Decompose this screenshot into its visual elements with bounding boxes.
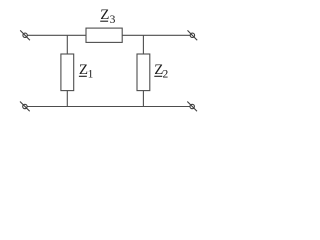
label Z1: [79, 62, 94, 81]
terminal top-left slash: [20, 30, 30, 40]
terminal bottom-left slash: [20, 102, 30, 112]
terminal top-left circle: [23, 33, 27, 37]
impedance Z1 box: [61, 54, 74, 91]
svg-text:3: 3: [110, 14, 116, 26]
terminal bottom-left circle: [23, 104, 27, 108]
svg-text:2: 2: [163, 69, 169, 81]
wire top rail left segment: [27, 34, 86, 36]
label Z2: [154, 62, 168, 81]
label Z3: [100, 7, 115, 26]
terminal bottom-right circle: [190, 104, 194, 108]
wire bottom rail: [27, 106, 190, 108]
wire top rail right segment: [122, 34, 190, 36]
wire right branch lower: [142, 91, 144, 107]
terminal top-right slash: [188, 30, 198, 40]
terminal bottom-right slash: [187, 102, 197, 112]
terminal top-right circle: [190, 33, 194, 37]
wire left branch lower: [66, 91, 68, 107]
impedance Z3 box: [86, 28, 122, 42]
wire left branch upper: [66, 35, 68, 54]
svg-text:1: 1: [88, 69, 94, 81]
wire right branch upper: [142, 35, 144, 54]
impedance Z2 box: [137, 54, 150, 91]
